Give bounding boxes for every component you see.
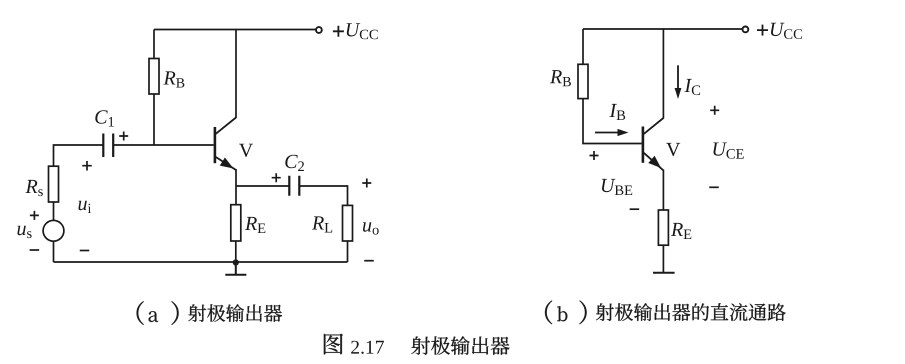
junction dot (a) — [233, 259, 239, 265]
label V (b) — [666, 143, 680, 156]
label plus at base (b) — [590, 151, 599, 160]
label UBE — [602, 179, 632, 195]
wire: emitter to C2 (a) — [236, 185, 289, 187]
wire: bottom ground rail (a) — [54, 261, 348, 263]
label plus of UCE — [710, 106, 719, 115]
wire: RE to ground (b) — [662, 245, 664, 273]
current arrow IB — [595, 129, 629, 136]
label plus before C2 — [272, 173, 281, 182]
wire: circuit (a) top supply rail — [154, 29, 316, 31]
capacitor C1 plates — [103, 134, 113, 158]
label IB — [609, 104, 625, 120]
label RE (b) — [671, 223, 691, 239]
wire: RE to ground rail (a) — [235, 241, 237, 262]
label minus of UBE — [630, 208, 640, 210]
label RB (b) — [550, 70, 571, 86]
wire: emitter down to RE (b) — [662, 170, 664, 211]
wire: input loop left + base wire (a) — [54, 145, 104, 166]
ground symbol (b) — [653, 272, 675, 274]
wire: RB branch upper (b) — [582, 29, 584, 64]
label uo — [363, 222, 379, 234]
caption (b) — [545, 301, 786, 325]
transistor V (b) base bar — [642, 127, 645, 163]
resistor RE (b) — [658, 210, 668, 245]
label ui — [79, 201, 92, 213]
transistor V (a) base bar — [214, 127, 217, 163]
wire: C1 to base (a) — [113, 144, 213, 146]
node +Ucc terminal (b) open circle — [743, 27, 749, 33]
wire: collector to rail (b) — [662, 29, 664, 119]
label RB (a) — [163, 71, 184, 87]
wire: RL to ground rail — [347, 241, 349, 262]
resistor RB (b) — [578, 64, 588, 98]
transistor V (b) collector diagonal — [644, 118, 664, 134]
label plus of uo — [362, 179, 371, 188]
label Rs — [25, 180, 42, 196]
label V (a) — [239, 144, 253, 157]
caption (a) — [137, 301, 282, 325]
label minus of ui — [80, 250, 90, 252]
resistor RE (a) — [231, 205, 241, 241]
wire: C2 to RL (a) — [299, 186, 347, 205]
resistor Rs — [49, 166, 59, 202]
label plus of ui — [82, 161, 92, 171]
wire: emitter down to RE (a) — [235, 169, 237, 205]
ground symbol (a) — [225, 263, 246, 275]
transistor V (a) emitter diagonal with arrow — [216, 157, 236, 170]
label C1 — [95, 110, 114, 126]
label C2 — [285, 155, 304, 171]
label RL — [312, 216, 332, 232]
label IC — [684, 79, 700, 95]
wire: RB to base corner (b) — [583, 99, 642, 144]
figure caption 2.17 — [324, 334, 510, 355]
label minus of UCE — [709, 186, 719, 188]
label +Ucc (a) — [333, 23, 378, 39]
resistor RB (a) — [149, 59, 159, 95]
wire: collector to rail (a) — [235, 30, 237, 119]
wire: Rs to source us — [53, 202, 55, 220]
wire: Rb branch lower (a) — [153, 94, 155, 145]
wire: Rb branch upper (a) — [153, 30, 155, 59]
resistor RL — [343, 205, 353, 241]
transistor V (a) collector diagonal — [216, 118, 236, 134]
wire: us to ground rail — [53, 241, 55, 262]
label RE (a) — [245, 217, 265, 233]
node +Ucc terminal (a) open circle — [316, 27, 322, 33]
source us circle — [43, 220, 64, 241]
label minus of us — [30, 249, 40, 251]
current arrow IC — [675, 65, 682, 99]
wire: circuit (b) top supply rail — [583, 28, 742, 30]
label UCE — [713, 143, 743, 159]
capacitor C2 plates — [289, 176, 299, 196]
label +Ucc (b) — [757, 23, 802, 39]
label us — [18, 226, 32, 238]
label plus after C1 — [119, 132, 128, 141]
label minus of uo — [364, 260, 374, 262]
transistor V (b) emitter diagonal with arrow — [644, 153, 664, 171]
label plus of us — [30, 211, 39, 220]
